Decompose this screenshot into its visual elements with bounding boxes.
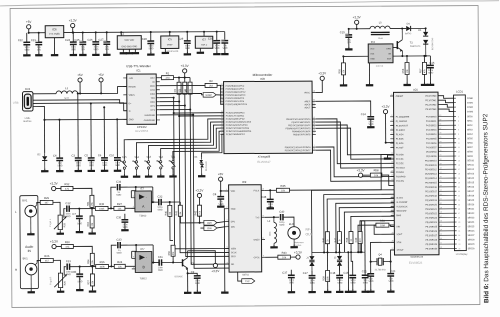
svg-text:R1: R1 [166, 71, 170, 75]
svg-text:C21: C21 [362, 269, 367, 273]
svg-text:SEG4: SEG4 [467, 134, 473, 136]
wire [160, 101, 179, 103]
wire [179, 202, 181, 205]
junction [116, 118, 118, 120]
ground [79, 52, 86, 55]
resistor R36 [96, 260, 109, 269]
wire C7 lead [78, 209, 80, 216]
capacitor C4 [53, 154, 63, 168]
svg-text:P5.5/SEG29: P5.5/SEG29 [426, 244, 438, 246]
junction [323, 251, 325, 253]
junction [348, 28, 350, 30]
svg-text:PCINT19/OC2B/INT1/PD3: PCINT19/OC2B/INT1/PD3 [226, 122, 252, 124]
wire C28 lead [150, 32, 152, 41]
svg-text:4: 4 [227, 225, 228, 227]
wire [351, 252, 353, 275]
svg-text:6: 6 [458, 121, 459, 123]
svg-text:9: 9 [458, 134, 459, 136]
svg-text:SMD: SMD [279, 225, 284, 227]
svg-text:GND2: GND2 [254, 239, 261, 241]
svg-text:Pegel L: Pegel L [50, 218, 52, 227]
junction [38, 32, 40, 34]
junction [370, 261, 372, 263]
svg-text:SEG0: SEG0 [467, 116, 473, 118]
wire IC7a gnd pin [199, 48, 201, 51]
svg-text:GND: GND [231, 209, 236, 211]
svg-text:9: 9 [392, 146, 393, 148]
svg-text:R35: R35 [99, 202, 104, 206]
svg-text:SEG19: SEG19 [467, 200, 475, 202]
svg-text:16: 16 [262, 188, 264, 190]
svg-text:Antennen-: Antennen- [295, 241, 305, 244]
wire [91, 228, 93, 232]
wire [26, 45, 28, 54]
power rail +3.3V [64, 31, 225, 34]
ground [103, 52, 110, 55]
svg-text:23: 23 [458, 195, 460, 197]
svg-text:AVCC: AVCC [304, 91, 310, 94]
svg-text:10: 10 [440, 247, 442, 249]
wire R58 to IC5 [382, 175, 394, 185]
wire [406, 75, 408, 84]
wire [290, 278, 292, 291]
svg-text:C22: C22 [18, 38, 23, 42]
svg-text:PCINT23/AIN1/PD7: PCINT23/AIN1/PD7 [226, 133, 246, 136]
wire feedback top [120, 186, 153, 188]
svg-text:21: 21 [440, 198, 442, 200]
wire inv input up [130, 191, 132, 198]
ground [270, 245, 277, 248]
wire junction row [312, 251, 365, 253]
svg-text:26: 26 [221, 93, 223, 95]
ground [92, 52, 99, 55]
svg-text:ADC6: ADC6 [304, 103, 311, 106]
ground [427, 82, 434, 85]
svg-text:PMBT5179: PMBT5179 [410, 46, 421, 48]
svg-text:6: 6 [391, 132, 392, 134]
svg-text:C27: C27 [99, 38, 104, 42]
svg-text:15: 15 [313, 126, 315, 128]
svg-text:28: 28 [440, 168, 442, 170]
svg-text:IC8: IC8 [260, 77, 265, 81]
svg-text:SMD: SMD [117, 253, 122, 255]
wire [338, 244, 340, 253]
junction [78, 208, 80, 210]
svg-text:Bild 6: Das Hauptschaltbild de: Bild 6: Das Hauptschaltbild des RDS-Ster… [482, 113, 490, 303]
resistor R34 [87, 253, 94, 265]
svg-text:P5.7/SEG15: P5.7/SEG15 [425, 182, 437, 184]
svg-text:8: 8 [314, 148, 315, 150]
svg-text:16V: 16V [347, 42, 352, 44]
ground [345, 47, 352, 50]
wire C22 lead [26, 33, 28, 42]
svg-text:PCINT16/RXD/PD0: PCINT16/RXD/PD0 [226, 112, 245, 114]
svg-text:VLCD1: VLCD1 [396, 198, 404, 200]
svg-text:29: 29 [458, 222, 460, 224]
svg-text:14: 14 [458, 156, 460, 158]
svg-text:C25: C25 [75, 38, 80, 42]
wire wiper [64, 267, 66, 276]
resistor R5 [185, 82, 192, 94]
svg-text:+3,3V: +3,3V [50, 240, 58, 244]
svg-text:PB7/OSC2/XTAL2/PCINT7: PB7/OSC2/XTAL2/PCINT7 [285, 149, 311, 152]
svg-text:SDA: SDA [387, 57, 392, 60]
supply +3.3V T1 [211, 263, 219, 273]
wire C15 lead [348, 29, 350, 35]
svg-text:38: 38 [439, 124, 441, 126]
svg-text:15: 15 [458, 160, 460, 162]
audio codec IC2 [117, 36, 141, 50]
svg-text:P5.6/SEG14: P5.6/SEG14 [425, 178, 437, 180]
svg-text:DIN: DIN [231, 227, 235, 229]
wire cap lead [106, 32, 108, 41]
svg-text:18: 18 [440, 212, 442, 214]
wire [124, 214, 126, 220]
svg-text:GPO1: GPO1 [254, 257, 261, 259]
svg-text:C26: C26 [88, 38, 93, 42]
wire [104, 160, 106, 169]
capacitor C14 [361, 112, 374, 126]
capacitor C6 [98, 153, 108, 167]
ground [184, 290, 191, 293]
svg-text:SEG21: SEG21 [468, 209, 476, 211]
svg-text:5: 5 [227, 247, 228, 249]
svg-text:10uH: 10uH [378, 38, 383, 40]
wire IC2 supply pin [120, 32, 122, 35]
jumper diode pair J2 [334, 252, 342, 270]
junction [178, 115, 180, 117]
svg-text:16V: 16V [81, 49, 86, 51]
wire R41 to DP0 [180, 216, 199, 223]
junction [91, 207, 93, 209]
supply +5V USB [77, 73, 82, 82]
wire [150, 43, 152, 53]
svg-text:REGIN: REGIN [129, 86, 136, 88]
wire IC5 port staircase [312, 190, 395, 253]
svg-text:TBP-2: TBP-2 [201, 45, 208, 47]
svg-text:/SUSPEND: /SUSPEND [144, 120, 156, 122]
wire [79, 277, 81, 289]
ground [367, 125, 374, 128]
svg-text:R36: R36 [100, 260, 105, 264]
ground [403, 82, 410, 85]
svg-text:6: 6 [227, 251, 228, 253]
svg-text:Pegel R: Pegel R [50, 276, 52, 285]
svg-text:TA4: TA4 [134, 155, 139, 159]
capacitor C19 [343, 271, 356, 285]
duo LED D1 [195, 157, 208, 175]
svg-text:C33: C33 [117, 238, 122, 242]
ground [367, 289, 374, 292]
wire [342, 56, 344, 62]
crystal Q4 [371, 253, 391, 271]
op-amp IC7A [131, 191, 155, 212]
svg-text:P4.2/SEG5: P4.2/SEG5 [426, 138, 437, 140]
page edge artifact [0, 1, 499, 6]
svg-text:COM2: COM2 [467, 107, 474, 109]
svg-text:R39: R39 [322, 276, 325, 281]
junction [406, 55, 408, 57]
svg-text:VLC2/SCLK: VLC2/SCLK [396, 206, 408, 208]
svg-text:16: 16 [313, 129, 315, 131]
svg-text:29: 29 [440, 163, 442, 165]
wire [72, 44, 74, 53]
supply +5V IC9 [218, 172, 223, 181]
wire [100, 82, 102, 93]
svg-text:R29: R29 [44, 196, 49, 200]
junction [169, 201, 171, 203]
svg-text:DUO-LED: DUO-LED [206, 161, 208, 171]
junction [79, 266, 81, 268]
wire to RF jack [283, 217, 294, 227]
wire R1 to +3.3V [174, 77, 185, 79]
junction [203, 31, 205, 33]
svg-text:30: 30 [221, 111, 223, 113]
ground [28, 290, 35, 293]
wire cap lead [72, 33, 74, 42]
supply column IC5 VDD [385, 114, 387, 143]
resistor R32 [61, 182, 73, 191]
junction [178, 101, 180, 103]
capacitor C23b [362, 275, 369, 284]
capacitor C3 [72, 153, 82, 167]
svg-text:C37: C37 [282, 271, 287, 275]
wire [116, 160, 118, 169]
svg-text:+3,3V: +3,3V [353, 15, 361, 19]
svg-text:C48: C48 [261, 195, 266, 199]
svg-text:IC7: IC7 [141, 247, 146, 251]
net label SUSP [203, 92, 216, 97]
wire C6 lead [103, 107, 105, 157]
wire C4 lead [58, 120, 60, 158]
svg-text:SEG13: SEG13 [467, 173, 475, 175]
svg-text:33: 33 [458, 239, 460, 241]
svg-text:C16: C16 [429, 61, 434, 65]
svg-text:3: 3 [133, 206, 134, 208]
svg-text:R42: R42 [194, 210, 197, 215]
transistor T1 [174, 251, 194, 278]
ground [114, 168, 121, 171]
svg-text:TA5: TA5 [122, 155, 127, 159]
svg-text:C31: C31 [158, 255, 163, 259]
junction [338, 251, 340, 253]
wire USB GND [33, 106, 127, 120]
junction [186, 31, 188, 33]
ground [121, 174, 128, 177]
wire [370, 119, 372, 126]
wire AREF to C14 [316, 101, 371, 117]
junction [100, 92, 102, 94]
svg-text:P1.2/MASTER: P1.2/MASTER [396, 116, 410, 119]
svg-text:PCINT17/TXD/PD1: PCINT17/TXD/PD1 [226, 116, 245, 118]
junction [189, 108, 191, 110]
svg-text:IC1: IC1 [136, 68, 141, 72]
wire DIN stub [200, 227, 203, 229]
capacitor C26 [88, 38, 100, 51]
wire [348, 37, 350, 48]
svg-text:SMD: SMD [116, 195, 121, 197]
svg-text:+3,3V: +3,3V [382, 105, 390, 109]
svg-text:SEG28: SEG28 [468, 239, 476, 241]
svg-text:C35: C35 [116, 215, 121, 219]
svg-text:9: 9 [263, 255, 264, 257]
wire key column [136, 122, 224, 159]
LCD controller IC5 [394, 92, 439, 255]
junction [95, 31, 97, 33]
resistor R42 [194, 205, 201, 216]
wire emitter tie [393, 55, 430, 57]
wire [90, 160, 92, 169]
svg-text:7: 7 [458, 125, 459, 127]
svg-text:22: 22 [313, 106, 315, 108]
wire bias top [135, 245, 137, 252]
wire [59, 161, 61, 170]
svg-text:29: 29 [221, 102, 223, 104]
svg-text:C3: C3 [72, 153, 76, 157]
wire R2 to RESET [217, 85, 224, 104]
svg-text:25: 25 [458, 204, 460, 206]
svg-text:SEG10: SEG10 [467, 160, 475, 162]
svg-text:16: 16 [458, 165, 460, 167]
svg-text:R40: R40 [165, 210, 168, 215]
wire [72, 28, 74, 33]
svg-text:R49: R49 [355, 237, 358, 242]
junction [106, 31, 108, 33]
wire feed [73, 246, 92, 253]
inductor L2 [267, 217, 276, 246]
wire [326, 244, 328, 253]
svg-text:IC4: IC4 [371, 40, 376, 44]
svg-text:PCLK: PCLK [254, 190, 260, 192]
supply +5V logic [98, 73, 103, 82]
svg-text:7: 7 [314, 145, 315, 147]
svg-text:35: 35 [439, 137, 441, 139]
wire [38, 45, 40, 54]
svg-text:3: 3 [391, 119, 392, 121]
junction [184, 77, 186, 79]
ground [51, 53, 58, 56]
junction [110, 207, 112, 209]
svg-text:SEG25: SEG25 [468, 226, 476, 228]
svg-text:BIAS: BIAS [396, 214, 401, 217]
wire [108, 265, 114, 267]
wire [352, 278, 354, 291]
wire [224, 43, 226, 53]
junction [192, 114, 194, 116]
svg-text:BZX384C5V6: BZX384C5V6 [432, 37, 434, 50]
resistor R49 [355, 231, 362, 243]
ground [421, 82, 428, 85]
svg-text:R43: R43 [282, 251, 287, 255]
svg-text:SEG15: SEG15 [467, 182, 475, 184]
wire [184, 73, 186, 78]
capacitor C15 [340, 30, 352, 44]
wire flag to MCU [216, 94, 224, 96]
svg-text:31: 31 [439, 154, 441, 156]
svg-text:P4.7/SEG0: P4.7/SEG0 [426, 116, 437, 118]
net label TXC [242, 279, 255, 284]
ground [76, 288, 83, 291]
junction [273, 216, 275, 218]
supply +3.3V AVCC [318, 71, 326, 80]
svg-text:17: 17 [313, 132, 315, 134]
svg-text:11: 11 [458, 143, 460, 145]
svg-text:SEG5: SEG5 [467, 138, 473, 140]
svg-text:22: 22 [391, 213, 393, 215]
wire inv tie [131, 190, 135, 192]
svg-text:P5.5/SEG13: P5.5/SEG13 [425, 174, 437, 176]
svg-text:P5.4/SEG28: P5.4/SEG28 [426, 240, 438, 242]
svg-text:35: 35 [458, 248, 460, 250]
svg-text:R45: R45 [280, 184, 285, 188]
wire to C34 [111, 187, 116, 208]
svg-text:P2.0/D0: P2.0/D0 [396, 154, 404, 156]
svg-text:PB6/OSC1/XTAL1/PCINT6: PB6/OSC1/XTAL1/PCINT6 [285, 146, 311, 149]
resistor R56 [402, 62, 409, 74]
ground [23, 53, 30, 56]
svg-text:XOUT: XOUT [396, 234, 403, 236]
jack L contact [15, 205, 37, 233]
wire bias top [135, 187, 137, 191]
wire to C33 [111, 245, 116, 266]
wire IC6 gnd pin [53, 38, 55, 54]
svg-text:VCC: VCC [370, 49, 375, 51]
junction [326, 251, 328, 253]
svg-text:34: 34 [439, 141, 441, 143]
svg-text:PB5/SCK/PCINT5: PB5/SCK/PCINT5 [293, 134, 311, 136]
ground [308, 290, 315, 293]
wire C10 lead [116, 119, 118, 157]
svg-text:12: 12 [440, 238, 442, 240]
wire LED drive [201, 134, 224, 158]
junction [152, 262, 154, 264]
wire cap lead [82, 32, 84, 41]
ground [384, 156, 391, 159]
svg-text:SEG7: SEG7 [467, 147, 473, 149]
wire key column [124, 119, 224, 159]
wire [108, 207, 114, 209]
svg-text:TEST/VPP: TEST/VPP [396, 211, 407, 213]
wire [406, 56, 408, 62]
svg-text:C18: C18 [330, 271, 335, 275]
svg-text:R2: R2 [209, 79, 213, 83]
svg-text:R55: R55 [338, 69, 341, 74]
svg-text:18: 18 [313, 91, 315, 93]
wire boost rail [349, 28, 370, 30]
svg-text:SEG22: SEG22 [468, 213, 476, 215]
svg-text:26: 26 [440, 176, 442, 178]
wire [199, 216, 201, 223]
svg-text:PCINT8/ADC0/PC0: PCINT8/ADC0/PC0 [226, 85, 246, 88]
wire [56, 188, 61, 190]
junction [187, 272, 189, 274]
svg-text:2: 2 [133, 196, 134, 198]
svg-text:GND GND GND: GND GND GND [121, 46, 137, 48]
wire signal [69, 208, 95, 210]
svg-text:TXD: TXD [150, 98, 155, 100]
wire VBUS to REGIN [78, 87, 127, 94]
svg-text:7: 7 [227, 254, 228, 256]
svg-text:P5.2/SEG10: P5.2/SEG10 [425, 160, 437, 162]
svg-text:SEG14: SEG14 [467, 178, 475, 180]
svg-text:GND: GND [129, 119, 134, 121]
svg-text:R26: R26 [44, 254, 49, 258]
svg-text:/RESET: /RESET [396, 96, 404, 98]
wire [184, 78, 186, 82]
resistor R31 [87, 195, 94, 207]
wire feed [73, 188, 92, 195]
svg-text:C10: C10 [109, 153, 114, 157]
